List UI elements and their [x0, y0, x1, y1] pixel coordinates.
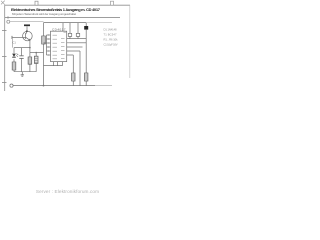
wire ground strap under IC	[44, 62, 63, 66]
wire R3 branch	[35, 53, 37, 72]
svg-text:Mit jedem Tastendruck wird der: Mit jedem Tastendruck wird der Ausgang u…	[12, 12, 76, 16]
svg-text:R1...R6 10k: R1...R6 10k	[104, 38, 119, 42]
wire main vertical feed	[43, 23, 45, 86]
capacitor C2	[68, 23, 71, 39]
wire Q output 4	[70, 55, 73, 73]
resistor R1	[12, 62, 16, 70]
svg-text:C1 10µF 16V: C1 10µF 16V	[104, 43, 118, 47]
diode D2	[84, 26, 88, 30]
svg-text:C1: C1	[13, 41, 17, 45]
separator rule	[5, 17, 120, 19]
svg-text:D1 1N4148: D1 1N4148	[104, 28, 118, 32]
capacitor C1	[19, 56, 23, 59]
resistor R4	[42, 36, 46, 44]
resistor R2	[28, 57, 32, 64]
LED D1	[12, 54, 18, 58]
wire base drop	[11, 37, 13, 47]
wire left cell top	[14, 47, 30, 49]
ground	[21, 72, 24, 77]
terminal bus input	[10, 84, 13, 87]
wire R6 to bus	[85, 81, 87, 86]
capacitor C3	[76, 23, 79, 39]
svg-text:CD4017: CD4017	[52, 27, 66, 31]
base input terminal	[11, 36, 13, 39]
wire Q output 2	[70, 46, 83, 48]
wire top rail	[44, 22, 87, 24]
wire base lead	[12, 36, 25, 38]
terminal supply rail	[7, 20, 10, 23]
wire bottom bus	[13, 85, 95, 87]
caption	[0, 189, 135, 194]
IC inner text rows	[53, 35, 65, 59]
node mid rail junction	[35, 52, 37, 54]
node bus junction	[43, 85, 45, 87]
wire bottom bus faded	[95, 85, 112, 87]
wire left pins to feed	[44, 35, 47, 55]
resistor R5	[72, 73, 75, 81]
wire emitter to mid rail	[29, 48, 31, 53]
wire R2 branch	[29, 53, 31, 72]
supply terminal +UB	[24, 24, 30, 26]
wire R5 to bus	[72, 81, 74, 86]
wire IC vdd drop	[62, 23, 64, 32]
wire cap branch	[21, 48, 23, 72]
pin stubs left	[47, 35, 51, 55]
pin numbers left	[49, 32, 66, 56]
wire supply rail faint right	[86, 22, 112, 24]
pin stubs right	[67, 39, 70, 55]
wire Q output 3	[70, 51, 80, 86]
transistor T1	[23, 30, 33, 41]
wire pin row 1	[70, 38, 86, 40]
wire collector to supply	[26, 26, 28, 31]
wire mid rail	[30, 52, 44, 54]
IC U1 CD4017	[51, 31, 67, 61]
wire supply rail faint left	[10, 21, 44, 23]
wire left branch vertical	[13, 48, 15, 72]
wire Q output 1	[70, 42, 86, 44]
wire diode vertical	[85, 23, 87, 73]
svg-text:T1 BC547: T1 BC547	[104, 33, 118, 37]
wire emitter down	[29, 40, 31, 47]
resistor R3	[34, 56, 38, 63]
resistor R6	[85, 73, 88, 81]
node emitter junction	[29, 47, 31, 49]
wire left cell bottom	[14, 71, 36, 73]
